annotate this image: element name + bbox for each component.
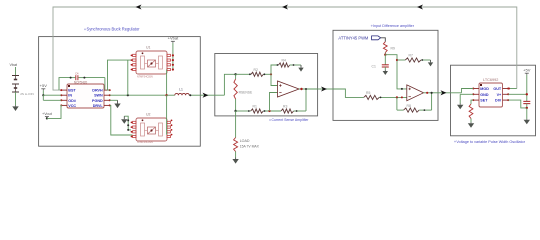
svg-text:15A 7V MAX: 15A 7V MAX: [240, 145, 260, 149]
IC U4 pins MOD GND SET OUT V+ DIV: [472, 87, 509, 103]
wire: R8 feedback bottom: [397, 109, 404, 111]
wire: diff output to oscillator box: [438, 92, 462, 94]
svg-text:Vbat: Vbat: [10, 63, 18, 67]
svg-text:Synchronous Buck Regulator: Synchronous Buck Regulator: [87, 26, 141, 31]
ground: R4 return: [298, 65, 303, 72]
wire: node to plus riser: [385, 55, 407, 89]
resistor R7: [405, 58, 421, 62]
wire: opamp output: [299, 88, 318, 90]
arrow: feedback direction left (left): [136, 4, 142, 9]
wire: DRVL to U2 gate: [110, 105, 133, 135]
wire: R3 to output riser: [294, 110, 306, 112]
wire: bypass to ground: [526, 108, 528, 119]
wire: RT to ground: [470, 119, 472, 123]
wire: sense node to R2: [236, 73, 251, 75]
arrow: feedback direction left (middle): [282, 4, 288, 9]
node: +Vout junction: [46, 117, 48, 119]
node: SWN junction at U1 source riser: [127, 94, 129, 96]
resistor R9: [383, 42, 387, 53]
power symbol +Vout: [42, 112, 53, 118]
ground: R7 return: [428, 60, 433, 66]
capacitor C2 bypass: [523, 101, 530, 108]
wire: R8 to output riser: [419, 109, 431, 111]
wire: rsense leads: [235, 74, 237, 79]
svg-text:PGND: PGND: [92, 99, 103, 103]
node: rsense bottom junction: [234, 110, 236, 112]
transistor U2 low-side FET SO-8: [131, 118, 171, 141]
svg-text:R3: R3: [283, 105, 287, 109]
wire: switch node to L1: [167, 94, 175, 96]
pin marker U3 pin1: [68, 85, 70, 87]
svg-text:RSENSE: RSENSE: [239, 91, 253, 95]
IC U4 LTC6992 body: [479, 83, 503, 107]
wire: +5V to OD# pin: [43, 99, 61, 101]
ground: U2 source: [121, 116, 127, 124]
node: R1/R3 junction: [268, 110, 270, 112]
svg-text:LTC6992: LTC6992: [483, 78, 498, 82]
svg-text:2S Li-ION: 2S Li-ION: [20, 92, 34, 96]
svg-text:C4: C4: [75, 71, 79, 75]
svg-text:U1: U1: [146, 46, 151, 50]
svg-text:L1: L1: [179, 88, 183, 92]
label anchor cross 3: [454, 141, 456, 143]
svg-text:SET: SET: [480, 99, 488, 103]
wire: DIV strap: [508, 100, 527, 108]
node: R2/R4 junction: [270, 73, 272, 75]
wire: input jog to MOD: [462, 89, 474, 93]
power symbol +5V (buck): [40, 83, 48, 90]
power symbol +5V (oscillator): [523, 68, 531, 75]
module frame: Synchronous Buck Regulator box: [39, 37, 201, 147]
svg-text:GND: GND: [480, 93, 489, 97]
op-amp A2 difference amplifier: [407, 85, 424, 101]
IC U3 left pins BST IN OD# VCC: [60, 89, 76, 108]
wire: feedback riser to output: [305, 89, 307, 111]
svg-text:VCC: VCC: [68, 104, 76, 108]
svg-text:Input Difference amplifier: Input Difference amplifier: [373, 24, 415, 28]
svg-text:U2: U2: [146, 113, 151, 117]
svg-text:OD#: OD#: [68, 99, 76, 103]
resistor R3: [281, 109, 294, 113]
wire: BST bootstrap left riser: [59, 78, 70, 91]
node: diff output junction: [426, 92, 428, 94]
node: switch node junction: [165, 94, 167, 96]
svg-text:V+: V+: [497, 93, 502, 97]
wire: minus to R8 riser: [396, 97, 398, 110]
svg-text:DIV: DIV: [495, 99, 502, 103]
svg-text:R5: R5: [366, 91, 370, 95]
wire: R4 to ground: [290, 64, 301, 66]
node: minus input junction: [396, 96, 398, 98]
ground: oscillator GND: [457, 104, 463, 110]
ground: bypass return: [524, 119, 530, 124]
svg-text:R8: R8: [407, 104, 411, 108]
node: U2 drain dots: [171, 120, 173, 136]
connector: ATTINY45 PWM input flag: [338, 35, 380, 40]
wire: SET to RT: [471, 100, 473, 104]
svg-text:MOD: MOD: [480, 87, 489, 91]
svg-text:C1: C1: [372, 65, 376, 69]
pin marker U4 pin1: [480, 84, 482, 86]
svg-text:OUT: OUT: [493, 87, 502, 91]
arrow: sense output flow: [321, 86, 327, 91]
wire: feedback net from oscillator OUT across the top: [53, 7, 517, 90]
wire: GND pin to ground: [460, 93, 473, 95]
svg-text:R2: R2: [254, 68, 258, 72]
inductor L1: [175, 93, 189, 95]
wire: +Vout stub: [46, 117, 48, 119]
svg-text:SWN: SWN: [94, 94, 103, 98]
wire: node to opamp plus input: [271, 74, 278, 85]
power symbol +Vbat (U1 drain): [168, 36, 179, 43]
resistor R4: [279, 63, 290, 67]
label anchor cross 2: [371, 25, 373, 27]
wire: R7 to ground: [421, 59, 431, 61]
svg-text:LOAD: LOAD: [240, 139, 250, 143]
capacitor C1: [382, 55, 389, 70]
svg-text:BST: BST: [68, 89, 76, 93]
op-amp A1 current sense: [278, 81, 300, 97]
svg-text:NTMFS4C09N: NTMFS4C09N: [137, 141, 153, 144]
svg-text:ATTINY45 PWM: ATTINY45 PWM: [338, 35, 369, 40]
svg-text:Current Sense Amplifier: Current Sense Amplifier: [272, 118, 310, 122]
module frame: Voltage to variable Pulse Width Oscillator box: [451, 65, 536, 136]
wire: load to ground: [235, 152, 237, 158]
module frame: Current Sense Amplifier box: [215, 54, 318, 116]
IC U3 right pins DRVH SWN PGND DRVL: [92, 89, 111, 108]
wire: bootstrap top run: [85, 77, 105, 79]
wire: +Vbat rail to U1 drain pins: [172, 43, 174, 70]
node: DIV junction: [526, 107, 528, 109]
wire: V+ to 5V rail: [508, 93, 527, 95]
arrow: buck output flow: [203, 93, 209, 98]
resistor R8: [404, 108, 420, 112]
resistor RSENSE: [234, 79, 237, 99]
svg-text:R1: R1: [253, 105, 257, 109]
wire: sense output to diff amp box: [318, 88, 333, 90]
node: U1 drain dots: [172, 54, 174, 70]
wire: diff amp output: [424, 92, 439, 94]
wire: R9 lead to node: [384, 53, 386, 55]
IC U3 NCP5420 body: [67, 84, 104, 108]
ground: battery negative: [12, 105, 18, 111]
battery BT1 2S Li-ION: [12, 76, 19, 93]
ground: load return: [232, 158, 238, 164]
node: sense top junction: [234, 73, 236, 75]
wire: SWN run to switch node: [110, 94, 167, 96]
resistor LOAD: [234, 138, 238, 152]
wire: R1 to junction: [263, 110, 281, 112]
svg-text:DRVH: DRVH: [92, 89, 103, 93]
svg-text:NTMFS4C05N: NTMFS4C05N: [137, 76, 153, 79]
svg-text:R7: R7: [409, 54, 413, 58]
wire: junction to opamp minus input: [270, 93, 278, 112]
svg-text:DRVL: DRVL: [93, 104, 104, 108]
module frame: Input Difference amplifier box: [333, 30, 438, 120]
wire: bottom row to R1: [236, 110, 251, 112]
wire: U1 source to switch node: [166, 70, 168, 96]
wire: bootstrap right riser: [104, 78, 106, 91]
wire: R7 lead: [397, 59, 405, 61]
wire: U1 source riser: [127, 60, 129, 95]
label anchor cross 4: [84, 28, 86, 30]
wire: DRVH to U1 gate riser: [108, 60, 132, 90]
wire: load branch through box bottom: [235, 111, 237, 138]
wire: input jog up: [224, 74, 235, 95]
resistor RT set: [469, 104, 473, 119]
wire: OUT to top feedback riser: [508, 88, 517, 90]
ground: RT return: [468, 122, 474, 127]
wire: pwm flag to R9: [381, 38, 386, 42]
capacitor C4 bootstrap: [70, 71, 86, 80]
wire: +5V to IN pin: [43, 94, 61, 96]
label anchor cross: [269, 119, 271, 121]
wire: diff amp input entry: [333, 89, 364, 97]
node: R9/C1/R7 junction: [384, 54, 386, 56]
wire: output riser: [431, 93, 433, 110]
svg-text:R4: R4: [282, 59, 286, 63]
wire: 5V rail down: [526, 75, 528, 101]
node: R7 tap junction: [396, 59, 398, 61]
node: +5V junction: [42, 94, 44, 96]
node: output junction: [300, 88, 302, 90]
node: V+ junction: [526, 93, 528, 95]
resistor R2: [251, 72, 264, 76]
wire: +5V stub to junction: [42, 90, 44, 95]
wire: battery top lead: [15, 67, 17, 76]
svg-text:+5V: +5V: [523, 68, 531, 73]
wire: battery bottom lead: [15, 92, 17, 105]
resistor R1: [251, 109, 264, 113]
ground: PGND: [110, 100, 121, 108]
svg-text:+Vout: +Vout: [42, 112, 53, 116]
svg-text:IN: IN: [68, 94, 72, 98]
node: plus input dots: [401, 88, 403, 90]
wire: R2 to node: [263, 73, 271, 75]
ground: C1 return: [383, 70, 388, 75]
wire: switch node to U2 drain pins: [166, 95, 168, 134]
svg-text:NCP5420: NCP5420: [74, 80, 88, 84]
wire: buck output into current sense box: [200, 94, 224, 96]
arrow: feedback direction left (right): [417, 4, 423, 9]
svg-text:+Vbat: +Vbat: [168, 36, 179, 41]
wire: L1 to box edge: [189, 94, 200, 96]
wire: U2 source bus: [124, 116, 131, 130]
svg-text:Voltage to variable Pulse Widt: Voltage to variable Pulse Width Oscillat…: [456, 140, 525, 144]
svg-text:R9: R9: [391, 47, 395, 51]
svg-text:+5V: +5V: [40, 83, 48, 88]
wire: +Vout to VCC pin: [47, 105, 62, 118]
wire: R5 to minus input: [379, 96, 407, 98]
arrow: control voltage flow: [441, 90, 447, 95]
wire: node to R4 riser: [271, 65, 279, 74]
wire: +5V junction down: [42, 95, 44, 100]
resistor R5: [364, 95, 380, 99]
transistor U1 high-side FET SO-8: [131, 51, 171, 74]
node: U2 source dots: [127, 119, 129, 130]
